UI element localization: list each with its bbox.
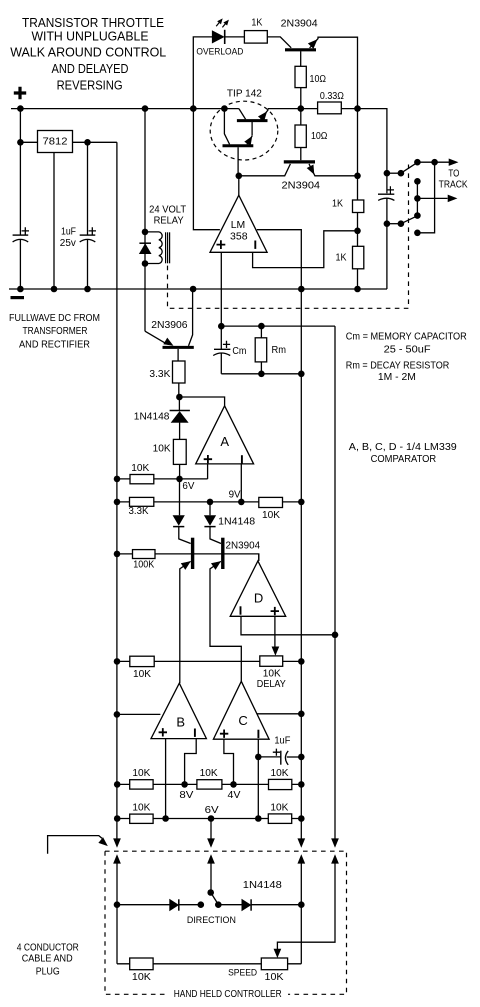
arrow delay pot wiper — [272, 647, 279, 655]
comparator B triangle — [151, 683, 206, 738]
relay coil — [145, 232, 170, 264]
arrow callout tip — [99, 838, 107, 846]
node direction common — [207, 889, 214, 896]
svg-text:7812: 7812 — [43, 136, 68, 148]
label B — [176, 714, 185, 729]
callout cable arrow — [48, 836, 103, 854]
wire relay linkage dashed — [168, 165, 409, 309]
svg-text:AND DELAYED: AND DELAYED — [52, 61, 129, 76]
TIP142 dashed circle — [210, 101, 278, 160]
wire B plus lead — [165, 739, 167, 819]
wire A output — [179, 397, 224, 406]
note lm339 2 — [371, 454, 437, 465]
label C plus input — [220, 730, 228, 738]
diode relay flyback — [139, 243, 151, 254]
label 25v — [60, 238, 76, 249]
wire 7812 ground lead — [53, 153, 55, 290]
svg-text:1K: 1K — [251, 17, 262, 28]
wire Q2 mid emitter — [210, 561, 241, 681]
node delay rail tap — [114, 658, 121, 665]
resistor Rm — [255, 338, 267, 362]
svg-text:2N3904: 2N3904 — [226, 541, 261, 552]
wire B minus lead — [185, 739, 197, 785]
svg-text:10K: 10K — [262, 510, 280, 521]
label 2N3904 top — [281, 18, 318, 29]
wire 9V row — [117, 501, 301, 503]
label 2N3904 mid — [226, 541, 261, 552]
node C minus tap — [255, 815, 262, 822]
svg-text:1K: 1K — [336, 253, 347, 264]
svg-text:25v: 25v — [60, 238, 76, 249]
svg-text:1N4148: 1N4148 — [243, 880, 282, 891]
label B minus input — [194, 729, 196, 737]
capacitor raw filter — [13, 227, 29, 242]
label 8V — [179, 790, 193, 801]
arrow plug up 4 — [332, 855, 339, 863]
wire 6V row — [117, 478, 208, 480]
wire relay contact blade top — [401, 162, 418, 173]
resistor 3.3K 9V — [130, 497, 154, 506]
svg-text:PLUG: PLUG — [36, 967, 60, 978]
label 10K speed — [265, 972, 284, 983]
node direction contacts — [198, 901, 222, 908]
wire B supply — [117, 713, 160, 715]
label 1K upper — [332, 198, 343, 209]
wire direction left — [117, 904, 170, 906]
label 1K lower — [336, 253, 347, 264]
node 1uF left tap — [255, 754, 262, 761]
wire Q overload emitter — [310, 37, 358, 108]
label B plus input — [159, 728, 167, 736]
label 6V a — [182, 481, 194, 492]
wire C minus lead — [257, 739, 259, 818]
node Rm top — [258, 323, 265, 330]
wire 10K to 6V node — [179, 464, 181, 479]
wire Rm top lead — [260, 326, 262, 338]
wire LM358 output — [238, 176, 240, 195]
wire track output 1 — [417, 161, 449, 163]
label 10ohm upper — [310, 74, 327, 85]
wire controller rail — [116, 864, 118, 964]
resistor 1K overload — [244, 31, 267, 43]
node 7812 output cap — [84, 139, 91, 146]
wire 6V to diode3 — [179, 479, 181, 515]
node 6V junction — [176, 476, 183, 483]
arrow plug down 4 — [332, 839, 339, 847]
label 1uF — [61, 226, 76, 237]
note Cm memory capacitor — [346, 331, 467, 342]
resistor 3.3K relay — [173, 361, 186, 383]
node relay coil bottom — [142, 260, 149, 267]
wire TIP142 Q2 base — [237, 147, 239, 176]
wire raw cap to bus — [19, 240, 21, 290]
node 4V — [230, 781, 237, 788]
LED overload — [212, 30, 225, 44]
wire direction stem — [210, 864, 212, 893]
resistor 10K delay-left — [130, 656, 154, 666]
label Rm — [272, 345, 287, 356]
wire diode to 10K — [179, 422, 181, 439]
svg-text:2N3904: 2N3904 — [281, 18, 318, 29]
label Cm — [232, 346, 246, 357]
svg-text:Cm: Cm — [232, 346, 246, 357]
arrow Q driver emitter — [307, 165, 314, 174]
comparator A triangle — [196, 406, 254, 464]
label 10K delay — [263, 669, 281, 680]
svg-text:A: A — [220, 434, 229, 449]
wire rail right of TIP142 — [268, 108, 318, 110]
label 1uF comparator — [274, 735, 290, 746]
svg-text:10K: 10K — [265, 972, 284, 983]
wire diode to contact — [179, 904, 201, 906]
node 6V rail tap — [114, 476, 121, 483]
wire 10ohm upper to rail — [300, 88, 302, 109]
label TIP 142 — [227, 88, 262, 99]
resistor 10K row2 a — [130, 814, 153, 823]
svg-text:1uF: 1uF — [61, 226, 76, 237]
svg-text:CABLE AND: CABLE AND — [22, 954, 73, 965]
title line 3 — [10, 45, 166, 60]
node 9V rail tap — [114, 499, 121, 506]
wire track output 2 — [417, 197, 447, 199]
label 1N4148 direction — [243, 880, 282, 891]
node 9V junctions — [207, 499, 305, 506]
svg-text:10K: 10K — [153, 443, 171, 454]
svg-text:OVERLOAD: OVERLOAD — [196, 46, 243, 56]
title line 1 — [22, 15, 164, 30]
svg-text:4 CONDUCTOR: 4 CONDUCTOR — [17, 942, 79, 953]
svg-text:1N4148: 1N4148 — [134, 411, 170, 422]
arrow plug down 3 — [298, 839, 305, 847]
plus terminal — [14, 87, 26, 99]
label 10K row1 b — [200, 768, 218, 779]
svg-text:24 VOLT: 24 VOLT — [149, 205, 186, 216]
svg-text:Rm: Rm — [272, 345, 287, 356]
node Cm top — [218, 323, 225, 330]
label 24 VOLT — [149, 205, 186, 216]
transistor TIP142 Q1 bar — [237, 119, 268, 122]
wire C gnd side — [257, 713, 301, 715]
label 1K overload — [251, 17, 262, 28]
label C — [238, 713, 247, 728]
svg-text:4V: 4V — [228, 790, 241, 801]
label 10K row2 a — [132, 802, 150, 813]
svg-text:C: C — [238, 713, 247, 728]
resistor 10K row1 b — [197, 780, 222, 789]
wire Cm Rm top — [221, 325, 335, 327]
node contact column — [414, 159, 421, 236]
wire direction blade — [211, 893, 218, 905]
resistor 10K 6V — [130, 475, 154, 484]
wire speed wiper — [277, 864, 335, 950]
resistor 10ohm upper — [295, 66, 306, 87]
resistor 0.33ohm — [318, 102, 342, 114]
label OVERLOAD — [196, 46, 243, 56]
svg-text:A, B, C, D - 1/4 LM339: A, B, C, D - 1/4 LM339 — [349, 442, 457, 453]
resistor 10K 9V — [259, 497, 283, 507]
resistor 1K upper — [353, 200, 364, 213]
svg-text:2N3904: 2N3904 — [282, 180, 321, 191]
node Cm bottom net — [298, 371, 305, 378]
svg-text:Cm = MEMORY CAPACITOR: Cm = MEMORY CAPACITOR — [346, 331, 467, 342]
label 9V — [229, 490, 241, 501]
arrow Q overload emitter — [308, 40, 317, 49]
diode 1N4148 direction — [242, 899, 251, 910]
arrow Q1 mid emitter — [181, 562, 190, 570]
label 10K delay-left — [133, 669, 151, 680]
wire 9V to diode2 — [209, 502, 211, 515]
svg-text:2N3906: 2N3906 — [151, 320, 188, 331]
svg-text:0.33Ω: 0.33Ω — [320, 91, 344, 102]
wire x335 vertical — [334, 326, 336, 839]
label 10K A-plus — [153, 443, 171, 454]
wire 2N3906 collector — [189, 289, 193, 346]
label 0.33ohm — [320, 91, 344, 102]
node row1 rail tap — [114, 781, 121, 788]
label 6V row2 — [205, 805, 219, 816]
op-amp LM358 triangle — [210, 195, 267, 252]
comparator C triangle — [213, 681, 269, 739]
title line 4 — [52, 61, 129, 76]
wire 10ohm lower to Q driver — [300, 148, 302, 161]
resistor 100K — [133, 550, 156, 559]
svg-text:10Ω: 10Ω — [311, 131, 328, 142]
wire LM358 gnd side — [257, 230, 302, 289]
svg-text:10K: 10K — [131, 463, 149, 474]
svg-text:TRANSFORMER: TRANSFORMER — [23, 326, 88, 337]
arrow plug down 1 — [114, 839, 121, 847]
label LM358 plus input — [217, 240, 226, 249]
label hand held controller — [174, 989, 282, 1000]
arrow Q2 mid emitter — [212, 562, 221, 570]
wire relay branch — [144, 109, 146, 332]
wire TIP142 Q1 emitter — [261, 109, 268, 120]
arrow speed wiper — [274, 949, 281, 957]
node ground bus junctions — [17, 286, 361, 293]
svg-text:10K: 10K — [270, 802, 288, 813]
note Rm decay resistor — [346, 361, 450, 372]
label 10K speed-fixed — [132, 972, 151, 983]
svg-text:WALK AROUND CONTROL: WALK AROUND CONTROL — [10, 45, 166, 60]
svg-text:10K: 10K — [200, 768, 218, 779]
wire direction right — [218, 904, 242, 906]
label TO — [448, 169, 459, 180]
node switch feed bottom — [384, 220, 405, 227]
wire 7812 output — [73, 141, 117, 143]
label 2N3906 — [151, 320, 188, 331]
wire switch feed top — [387, 172, 401, 174]
node delay pot right — [298, 658, 305, 665]
svg-text:AND RECTIFIER: AND RECTIFIER — [19, 339, 90, 350]
label 2N3904 driver — [282, 180, 321, 191]
svg-text:1M - 2M: 1M - 2M — [378, 372, 416, 383]
wire ground bus — [9, 288, 387, 290]
label TRACK — [439, 180, 468, 191]
node rail right junctions — [298, 105, 361, 112]
node TIP base junction — [236, 173, 361, 180]
label fullwave 2 — [23, 326, 88, 337]
potentiometer SPEED 10K — [261, 958, 287, 970]
node row2 gnd — [298, 815, 305, 822]
label RELAY — [154, 216, 184, 227]
wire LM358 V+ supply — [193, 109, 220, 230]
diode 1N4148 memory — [170, 397, 190, 422]
diode 1N4148 left steer — [173, 516, 184, 527]
svg-text:TO: TO — [448, 169, 459, 180]
svg-text:3.3K: 3.3K — [149, 369, 170, 380]
wire x301 controller — [300, 864, 302, 964]
label 10K 6V — [131, 463, 149, 474]
node 8V — [181, 781, 188, 788]
capacitor track filter — [378, 186, 394, 200]
node A output — [176, 394, 183, 401]
resistor 1K lower — [353, 246, 364, 268]
wire 1uF left — [258, 756, 281, 758]
node B supply tap — [114, 711, 121, 718]
svg-text:HAND HELD CONTROLLER: HAND HELD CONTROLLER — [174, 989, 282, 1000]
svg-text:10K: 10K — [271, 768, 289, 779]
svg-text:DIRECTION: DIRECTION — [187, 915, 236, 925]
wire 100K row — [117, 554, 259, 561]
svg-text:DELAY: DELAY — [257, 679, 286, 690]
svg-text:1uF: 1uF — [274, 735, 290, 746]
wire 1uF cap to bus — [87, 240, 89, 290]
minus terminal — [11, 296, 25, 299]
capacitor Cm — [213, 341, 230, 356]
label 10K row2 b — [270, 802, 288, 813]
label DIRECTION — [187, 915, 236, 925]
label 10ohm lower — [311, 131, 328, 142]
node D minus to x335 — [332, 632, 339, 639]
note 1M-2M — [378, 372, 416, 383]
wire Q1 mid emitter — [180, 561, 191, 683]
wire D output — [258, 554, 260, 561]
label fullwave 3 — [19, 339, 90, 350]
svg-text:FULLWAVE DC FROM: FULLWAVE DC FROM — [9, 313, 100, 324]
regulator 7812 box — [38, 131, 73, 153]
label 7812 — [43, 136, 68, 148]
node 1uF right tap — [298, 754, 305, 761]
resistor 10K speed-fixed — [130, 958, 153, 970]
label C minus input — [257, 730, 259, 738]
resistor 10K A-plus — [173, 439, 186, 464]
wire Cm Rm bottom — [221, 373, 301, 375]
title line 5 — [57, 78, 123, 93]
diode 1N4148 right steer — [204, 516, 215, 527]
wire delay pot left — [117, 660, 260, 662]
controller dashed box — [105, 851, 347, 994]
arrow to track 1 — [449, 159, 458, 166]
wire 2N3906 base — [177, 349, 179, 361]
wire plug stem 2 — [210, 819, 212, 839]
svg-text:1K: 1K — [332, 198, 343, 209]
node relay coil top — [142, 229, 149, 236]
diode direction left — [170, 899, 179, 910]
wire rail to TIP142 collector bend — [239, 109, 246, 120]
resistor 10K row1 a — [130, 780, 153, 789]
capacitor 1uF comparator — [273, 749, 288, 765]
wire row1 — [117, 783, 301, 785]
svg-text:6V: 6V — [205, 805, 219, 816]
wire D minus lead — [241, 616, 335, 635]
label D plus input — [271, 607, 279, 615]
label 10K 9V — [262, 510, 280, 521]
wire A minus lead — [240, 464, 242, 502]
svg-text:3.3K: 3.3K — [129, 506, 149, 517]
node row2 rail tap — [114, 815, 121, 822]
node Rm bottom — [258, 371, 265, 378]
label A — [220, 434, 229, 449]
wire diode2 to Q2 — [210, 527, 221, 544]
label 4 conductor 3 — [36, 967, 60, 978]
wire switch feed bottom — [387, 223, 401, 225]
svg-text:10K: 10K — [263, 669, 281, 680]
label LM358 minus input — [254, 241, 256, 249]
arrow TIP142 Q2 emitter — [245, 137, 252, 146]
label DELAY — [257, 679, 286, 690]
svg-text:10K: 10K — [132, 972, 151, 983]
wire Q overload base — [300, 51, 302, 66]
wire Cm bottom lead — [220, 353, 222, 374]
wire D plus lead — [274, 616, 276, 646]
wire Q driver base — [239, 164, 291, 176]
arrow plug up 1 — [114, 855, 121, 863]
transistor Q overload bar — [285, 48, 316, 51]
node direction left tap — [114, 901, 121, 908]
label fullwave 1 — [9, 313, 100, 324]
wire contact crossover — [417, 162, 434, 233]
resistor 10K row1 c — [269, 779, 292, 789]
label D minus input — [240, 606, 242, 614]
wire row2 — [117, 818, 301, 820]
node top rail junctions — [17, 105, 228, 112]
comparator D triangle — [230, 561, 286, 616]
svg-text:100K: 100K — [133, 560, 154, 571]
wire TIP142 Q2 collector — [224, 109, 229, 145]
svg-text:TIP 142: TIP 142 — [227, 88, 262, 99]
svg-text:358: 358 — [230, 231, 248, 242]
label 10K row1 a — [132, 768, 150, 779]
wire x357 vertical — [357, 109, 359, 289]
label 1N4148 memory — [134, 411, 170, 422]
node 1K divider tap — [354, 228, 361, 235]
label 4V — [228, 790, 241, 801]
svg-text:COMPARATOR: COMPARATOR — [371, 454, 437, 465]
svg-text:B: B — [176, 714, 185, 729]
label 10K row1 c — [271, 768, 289, 779]
wire 1uF cap lead — [87, 142, 89, 235]
svg-text:10K: 10K — [132, 768, 150, 779]
label D — [254, 591, 263, 606]
label LM — [231, 220, 246, 231]
wire 2N3906 emitter — [145, 331, 166, 344]
arrow plug up 2 — [208, 855, 215, 863]
svg-text:25 - 50uF: 25 - 50uF — [384, 345, 431, 356]
arrow 2N3906 emitter — [164, 338, 173, 345]
capacitor 1uF 25v — [80, 227, 96, 242]
node C gnd tap — [298, 711, 305, 718]
node track wire junction — [431, 159, 438, 166]
arrow to track 2 — [448, 195, 457, 202]
svg-text:8V: 8V — [179, 790, 193, 801]
svg-text:10K: 10K — [132, 802, 150, 813]
label 4 conductor 1 — [17, 942, 79, 953]
resistor 10K row2 b — [268, 814, 291, 824]
node row1 gnd — [298, 781, 305, 788]
wire TIP142 Q2 emitter — [247, 136, 252, 145]
arrow plug up 3 — [298, 855, 305, 863]
wire Rm bottom lead — [260, 362, 262, 374]
